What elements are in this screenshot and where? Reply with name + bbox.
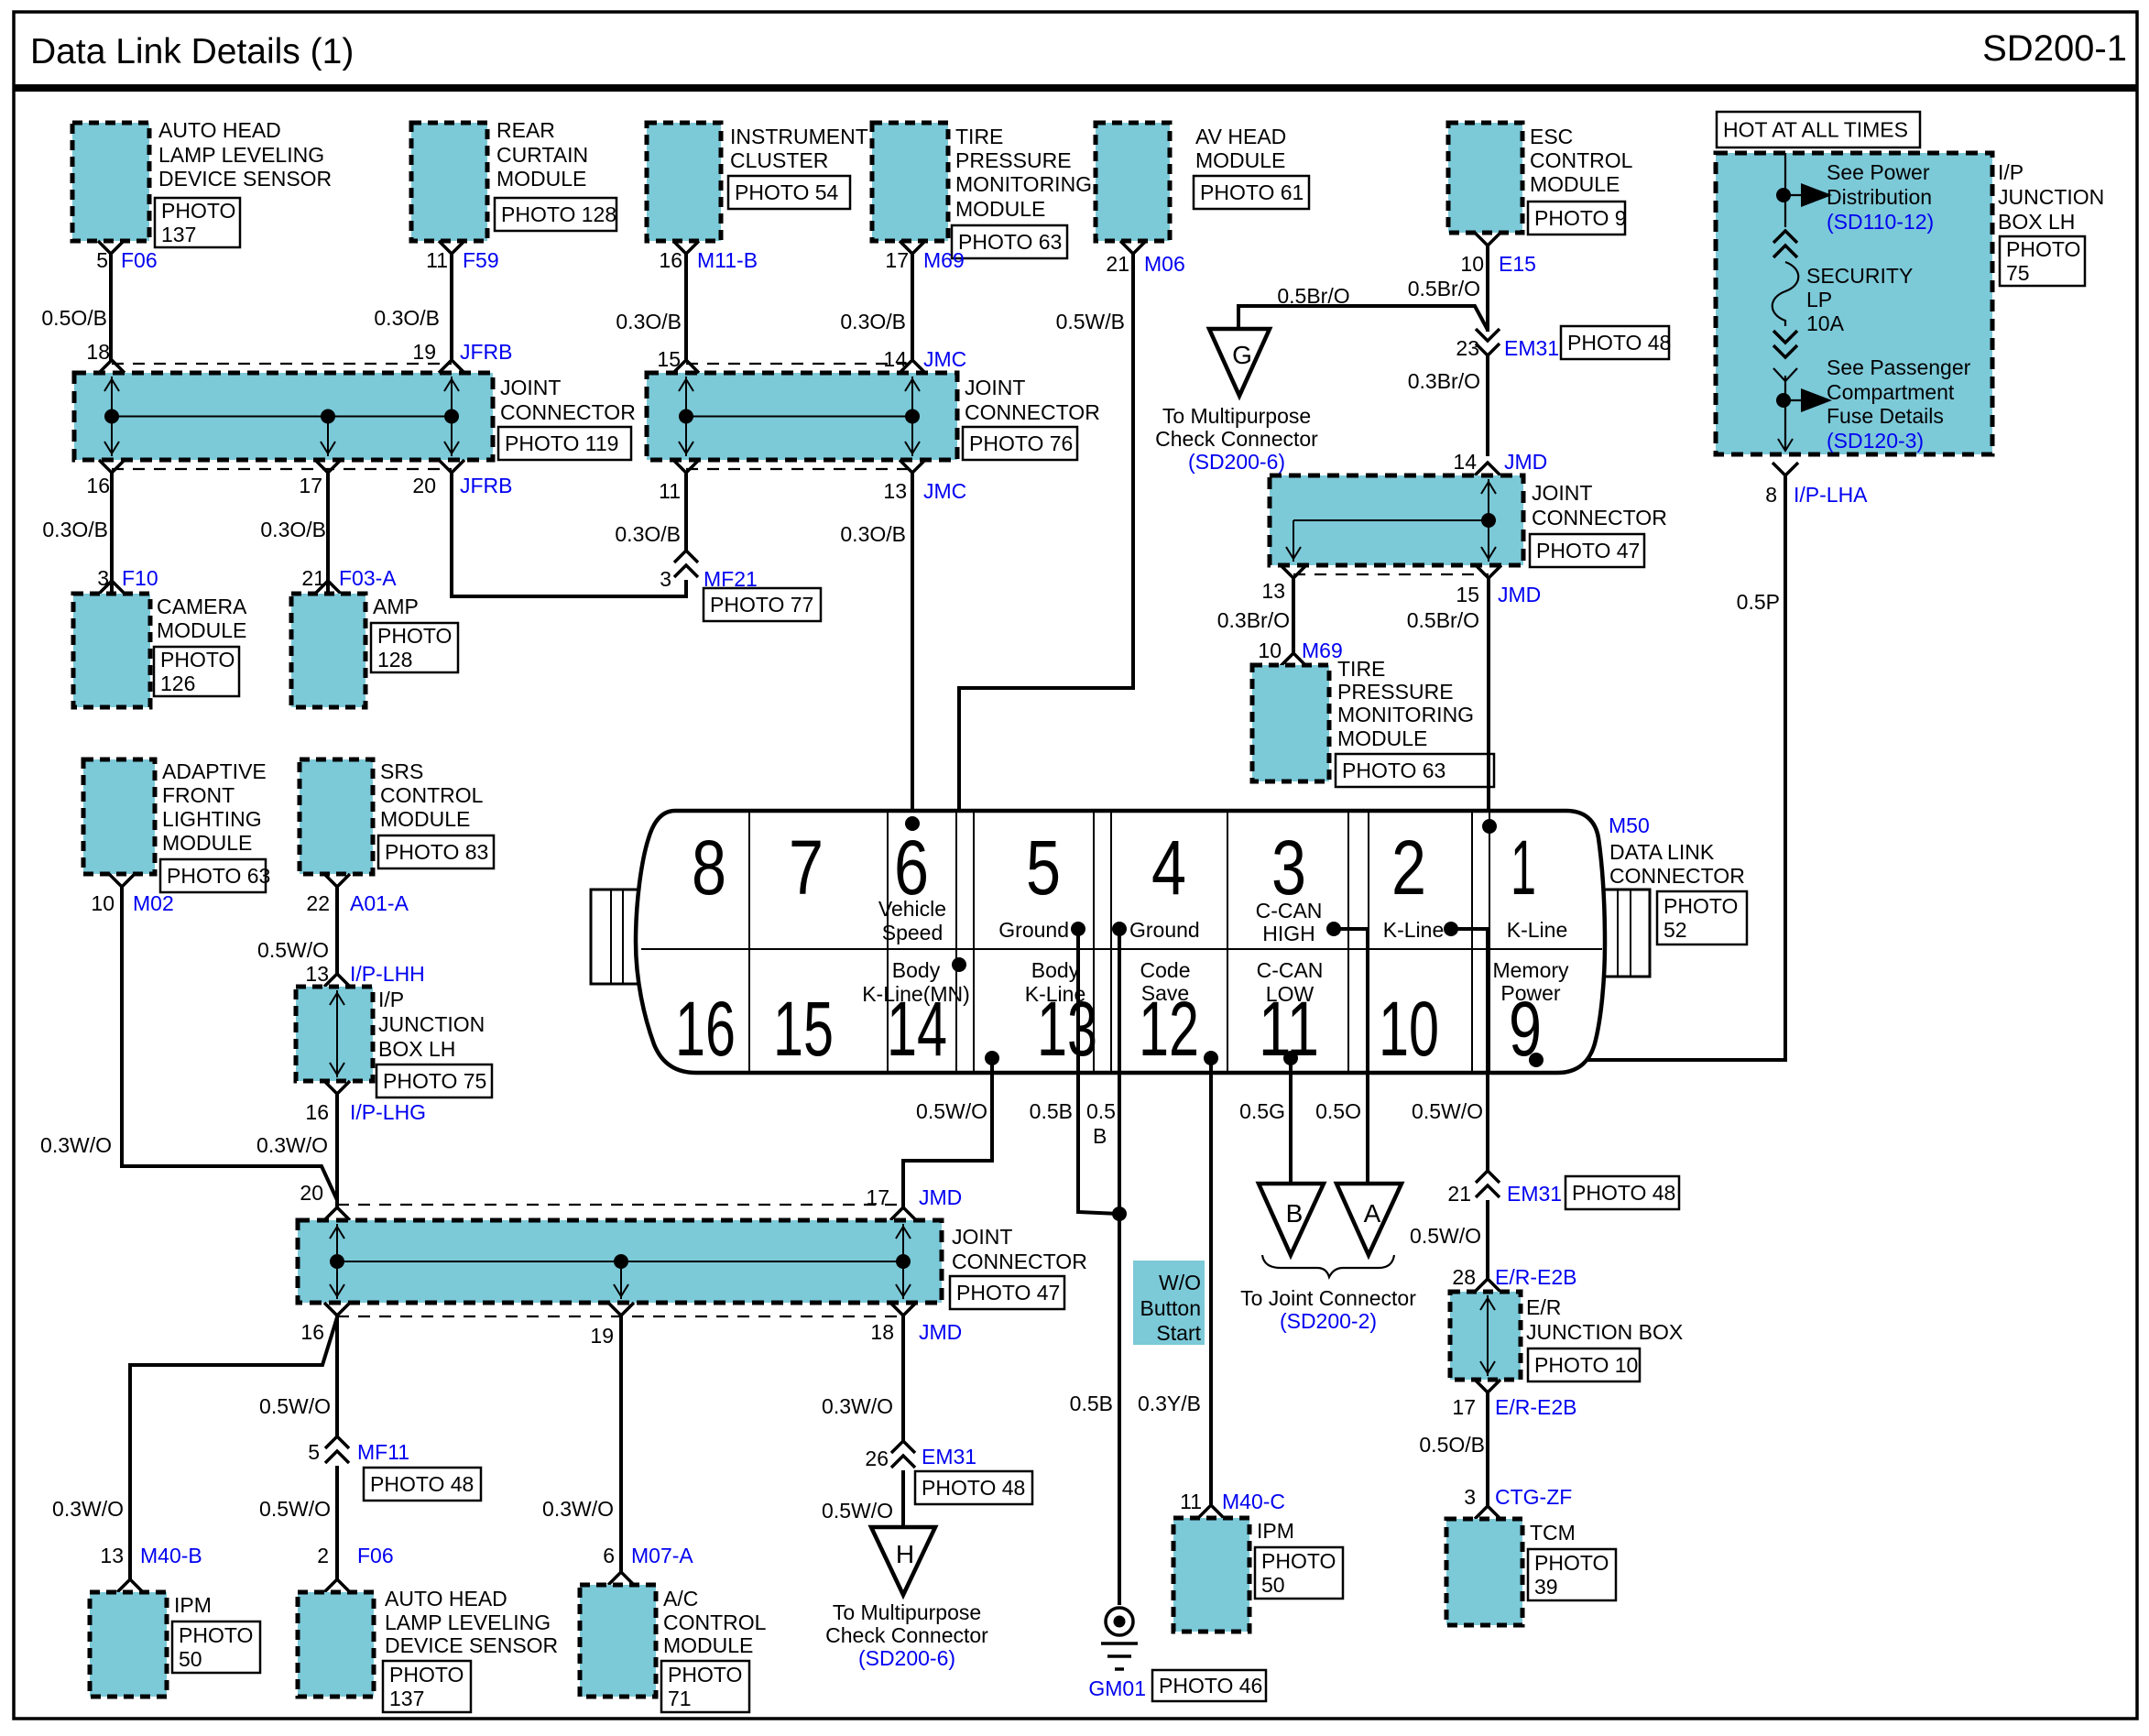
svg-text:0.3O/B: 0.3O/B	[42, 518, 108, 541]
svg-text:Vehicle: Vehicle	[878, 897, 946, 921]
wire DLC pin3 C-CAN high to triangle A (0.5O)	[1334, 929, 1368, 1184]
svg-text:DEVICE SENSOR: DEVICE SENSOR	[158, 167, 332, 191]
arrow to See Power Distribution	[1784, 194, 1801, 196]
svg-text:PHOTO 76: PHOTO 76	[969, 431, 1073, 455]
svg-text:0.3Br/O: 0.3Br/O	[1217, 608, 1290, 632]
svg-text:3: 3	[1271, 824, 1306, 911]
svg-text:G: G	[1232, 341, 1252, 369]
inline connector EM31 pin 23	[1476, 344, 1500, 355]
off-page triangle B	[1259, 1184, 1324, 1255]
svg-text:0.5B: 0.5B	[1030, 1099, 1073, 1123]
svg-text:Check Connector: Check Connector	[825, 1623, 988, 1647]
DLC right cable hatch symbol	[1598, 890, 1650, 977]
svg-text:0.3W/O: 0.3W/O	[542, 1497, 614, 1521]
pin 10 connector V of M02	[109, 874, 135, 887]
pin 17 connector V of E/R-E2B	[1475, 1380, 1500, 1392]
node: power distribution tap	[1776, 188, 1791, 202]
wire A01-A pin22 to I/P junction box (0.5W/O)	[335, 887, 339, 974]
svg-text:16: 16	[675, 986, 736, 1072]
svg-text:JOINT: JOINT	[1532, 481, 1592, 505]
svg-text:K-Line: K-Line	[1383, 918, 1444, 942]
svg-text:128: 128	[377, 648, 412, 671]
svg-text:I/P-LHA: I/P-LHA	[1794, 483, 1868, 507]
wire F59 pin11 to JC1 pin19 (0.3O/B)	[450, 254, 453, 362]
svg-text:M40-C: M40-C	[1222, 1490, 1285, 1513]
note box W/O Button Start	[1133, 1261, 1205, 1345]
photo ref box PHOTO 126	[154, 647, 239, 696]
svg-text:K-Line: K-Line	[1507, 918, 1567, 942]
svg-text:H: H	[896, 1540, 914, 1568]
node: pin 1 K-line junction	[1482, 819, 1497, 834]
svg-text:0.3O/B: 0.3O/B	[840, 522, 906, 546]
JC1 pin 17 exit chevron	[315, 460, 341, 473]
svg-text:PHOTO: PHOTO	[377, 624, 452, 648]
svg-text:DEVICE SENSOR: DEVICE SENSOR	[385, 1633, 558, 1657]
svg-text:Power: Power	[1500, 981, 1561, 1005]
svg-text:M07-A: M07-A	[631, 1544, 693, 1567]
svg-text:MODULE: MODULE	[1195, 148, 1285, 172]
wire JC2 pin11 down to MF21 (0.3O/B)	[684, 473, 688, 551]
svg-text:PHOTO 63: PHOTO 63	[167, 864, 270, 888]
svg-text:PHOTO 119: PHOTO 119	[505, 431, 618, 455]
svg-text:Start: Start	[1156, 1321, 1201, 1345]
svg-text:16: 16	[659, 248, 682, 272]
svg-text:16: 16	[305, 1100, 329, 1124]
joint connector JC (JFRB) PHOTO 119	[74, 373, 493, 460]
svg-text:17: 17	[299, 474, 322, 497]
svg-text:PRESSURE: PRESSURE	[1337, 680, 1454, 704]
svg-text:10: 10	[1379, 986, 1439, 1072]
wire DLC pin4 ground to GM01 (0.5B)	[1118, 929, 1121, 1605]
svg-text:ESC: ESC	[1530, 125, 1573, 148]
svg-text:AMP: AMP	[373, 595, 419, 618]
photo ref box PHOTO 48 (EM31 26)	[915, 1471, 1032, 1504]
svg-text:1: 1	[1511, 824, 1536, 911]
joint connector JC (JMC) PHOTO 76	[647, 373, 957, 460]
svg-text:BOX LH: BOX LH	[1998, 210, 2075, 234]
svg-text:PHOTO 63: PHOTO 63	[958, 230, 1062, 254]
brace under triangles A and B	[1262, 1255, 1394, 1277]
svg-text:15: 15	[1456, 583, 1479, 606]
svg-text:PHOTO: PHOTO	[1534, 1551, 1609, 1575]
svg-text:39: 39	[1534, 1575, 1558, 1599]
svg-text:F59: F59	[463, 248, 499, 272]
svg-text:26: 26	[865, 1447, 889, 1470]
svg-text:0.3O/B: 0.3O/B	[840, 310, 906, 333]
svg-text:JUNCTION: JUNCTION	[1998, 185, 2104, 209]
pin 14 chevron into JC3	[1475, 463, 1500, 475]
module: AUTO HEAD LAMP LEVELING DEVICE SENSOR (top, F06)	[72, 123, 149, 241]
svg-text:16: 16	[86, 474, 110, 497]
svg-text:PHOTO 47: PHOTO 47	[956, 1281, 1060, 1305]
svg-text:CONNECTOR: CONNECTOR	[965, 400, 1100, 424]
svg-text:3: 3	[1464, 1485, 1476, 1509]
svg-text:PHOTO 61: PHOTO 61	[1200, 180, 1304, 204]
svg-text:AV HEAD: AV HEAD	[1195, 125, 1286, 148]
svg-text:17: 17	[1452, 1395, 1476, 1419]
photo ref box PHOTO 52	[1657, 891, 1747, 944]
svg-text:See Power: See Power	[1827, 160, 1930, 184]
pin 3 connector V of F10	[99, 581, 125, 594]
DLC middle divider	[641, 948, 1602, 950]
pin 8 connector V of I/P-LHA	[1773, 463, 1798, 475]
svg-text:SD200-1: SD200-1	[1982, 28, 2127, 69]
svg-text:M50: M50	[1609, 813, 1650, 837]
svg-text:19: 19	[590, 1324, 614, 1348]
svg-text:10: 10	[1460, 252, 1484, 276]
svg-text:0.3O/B: 0.3O/B	[260, 518, 326, 541]
JC4 pin 19 exit chevron	[608, 1303, 634, 1316]
svg-text:5: 5	[308, 1440, 320, 1464]
node: pin 11 C-CAN low junction	[1283, 1051, 1298, 1065]
svg-text:PHOTO 48: PHOTO 48	[370, 1472, 474, 1496]
svg-text:PHOTO 47: PHOTO 47	[1536, 539, 1640, 562]
svg-text:TIRE: TIRE	[1337, 657, 1385, 681]
pin 11 connector V of M40-C	[1198, 1505, 1224, 1518]
svg-text:28: 28	[1452, 1265, 1476, 1289]
arrow down to pin 8	[1778, 439, 1793, 451]
cell divider 8|7	[748, 811, 750, 1073]
svg-text:E/R: E/R	[1526, 1295, 1561, 1319]
svg-text:CONTROL: CONTROL	[663, 1610, 767, 1634]
svg-text:0.5O: 0.5O	[1315, 1099, 1361, 1123]
branch wire to IPM M40-B (0.3W/O)	[130, 1317, 337, 1580]
svg-text:BOX LH: BOX LH	[378, 1037, 455, 1061]
photo ref box PHOTO 46	[1152, 1670, 1266, 1701]
arrow to See Passenger Compartment Fuse Details	[1784, 399, 1801, 401]
svg-text:18: 18	[86, 340, 110, 364]
svg-text:0.5O/B: 0.5O/B	[41, 306, 107, 330]
wire DLC pin13 to JC4 pin17 (0.5W/O)	[903, 1058, 992, 1207]
svg-text:10: 10	[1258, 639, 1282, 662]
photo ref box PHOTO 71	[661, 1661, 749, 1712]
svg-text:AUTO HEAD: AUTO HEAD	[158, 118, 281, 142]
module: SRS CONTROL MODULE (A01-A)	[300, 759, 373, 874]
wire M69 pin17 to JC2 pin14 (0.3O/B)	[911, 254, 914, 362]
inline connector MF11 pin 5	[325, 1436, 349, 1448]
wire DLC pin2 K-line to EM31 pin21 (0.5W/O)	[1451, 929, 1488, 1171]
wire M06 pin21 to DLC pin14 (0.5W/B)	[959, 254, 1133, 965]
svg-text:M40-B: M40-B	[140, 1544, 202, 1567]
fuse SECURITY LP 10A	[1773, 262, 1799, 326]
svg-text:MODULE: MODULE	[380, 807, 470, 831]
svg-text:50: 50	[179, 1647, 202, 1671]
node: ground wires junction	[1112, 1206, 1127, 1221]
svg-text:0.3Br/O: 0.3Br/O	[1408, 369, 1480, 393]
svg-text:JMC: JMC	[923, 347, 966, 371]
svg-text:JMD: JMD	[919, 1320, 962, 1344]
svg-text:Distribution: Distribution	[1827, 185, 1932, 209]
module: IPM (M40-C)	[1173, 1518, 1249, 1632]
svg-text:(SD200-2): (SD200-2)	[1280, 1309, 1377, 1333]
data link connector M50 body	[636, 811, 1605, 1073]
svg-text:(SD200-6): (SD200-6)	[858, 1646, 955, 1670]
svg-text:LOW: LOW	[1266, 982, 1314, 1006]
JC4 pin 18 exit chevron	[890, 1303, 916, 1316]
photo ref box PHOTO 10	[1528, 1348, 1640, 1381]
svg-text:0.5: 0.5	[1086, 1099, 1116, 1123]
svg-text:JMC: JMC	[923, 479, 966, 503]
JC2 pin 13 exit chevron	[900, 460, 925, 473]
svg-text:PHOTO 9: PHOTO 9	[1534, 206, 1627, 230]
JC3 pin 15 exit chevron	[1476, 565, 1501, 578]
wire DLC pin5 ground to GM01 (0.5B)	[1078, 929, 1119, 1214]
svg-text:DATA LINK: DATA LINK	[1609, 840, 1715, 864]
svg-text:F10: F10	[122, 566, 158, 590]
svg-text:PHOTO 75: PHOTO 75	[383, 1069, 486, 1093]
photo ref box PHOTO 63	[952, 225, 1067, 258]
wire EM31 pin26 to triangle H (0.5W/O)	[901, 1470, 905, 1527]
svg-text:PHOTO 77: PHOTO 77	[710, 593, 813, 617]
svg-text:2: 2	[1391, 824, 1426, 911]
svg-text:E/R-E2B: E/R-E2B	[1495, 1395, 1576, 1419]
node: pin 2 K-line junction	[1444, 922, 1458, 936]
svg-text:0.3W/O: 0.3W/O	[822, 1394, 893, 1418]
svg-text:JFRB: JFRB	[460, 474, 513, 497]
svg-text:Data Link Details (1): Data Link Details (1)	[30, 32, 354, 71]
svg-text:10: 10	[91, 891, 115, 915]
svg-text:22: 22	[306, 891, 330, 915]
svg-text:PHOTO 46: PHOTO 46	[1159, 1674, 1262, 1698]
svg-text:137: 137	[389, 1687, 424, 1710]
svg-text:CONTROL: CONTROL	[1530, 148, 1633, 172]
photo ref box PHOTO 63 (mid)	[1336, 754, 1494, 787]
svg-text:PRESSURE: PRESSURE	[955, 148, 1072, 172]
svg-text:I/P: I/P	[378, 988, 404, 1011]
svg-text:K-Line(MN): K-Line(MN)	[862, 982, 970, 1006]
svg-text:CAMERA: CAMERA	[157, 595, 247, 618]
svg-text:PHOTO 63: PHOTO 63	[1342, 759, 1445, 782]
JC2 pin 11 exit chevron	[673, 460, 699, 473]
I/P JUNCTION BOX LH (small, teal)	[296, 987, 373, 1081]
pin 6 connector V of M07-A	[608, 1572, 634, 1585]
same-connector dashed line above JC1	[112, 363, 452, 365]
svg-text:JOINT: JOINT	[952, 1225, 1012, 1249]
svg-text:Ground: Ground	[998, 918, 1069, 942]
svg-text:11: 11	[426, 248, 448, 272]
photo ref box PHOTO 50 (right)	[1255, 1547, 1343, 1599]
svg-text:8: 8	[1765, 483, 1777, 507]
pin 11 connector V of F59	[439, 241, 464, 254]
wire JC1 pin16 to camera module (0.3O/B)	[110, 473, 114, 594]
svg-text:MONITORING: MONITORING	[955, 172, 1092, 196]
off-page triangle A	[1336, 1184, 1402, 1255]
module: IPM (M40-B)	[90, 1592, 167, 1697]
wire E15 pin10 down to EM31 (0.5Br/O)	[1486, 246, 1489, 332]
svg-text:0.3Y/B: 0.3Y/B	[1138, 1392, 1201, 1415]
svg-text:FRONT: FRONT	[162, 783, 235, 807]
svg-text:11: 11	[659, 479, 681, 503]
svg-text:JMD: JMD	[1498, 583, 1541, 606]
title separator bar	[14, 84, 2137, 92]
svg-text:CURTAIN: CURTAIN	[496, 143, 588, 167]
fuse feed line inside I/P junction box	[1784, 153, 1786, 227]
pin 22 connector V of A01-A	[324, 874, 350, 887]
svg-text:LAMP LEVELING: LAMP LEVELING	[158, 143, 324, 167]
photo ref box PHOTO 47	[1530, 534, 1644, 567]
svg-text:CTG-ZF: CTG-ZF	[1495, 1485, 1572, 1509]
wire I/P-LHG pin16 to JC4 pin20 (0.3W/O)	[335, 1094, 339, 1207]
svg-text:75: 75	[2006, 261, 2030, 285]
svg-text:Ground: Ground	[1129, 918, 1200, 942]
svg-text:EM31: EM31	[1507, 1182, 1562, 1206]
fuse bottom double chevron	[1773, 345, 1797, 357]
svg-text:Button: Button	[1140, 1296, 1202, 1320]
wire JC3 pin15 to DLC pin1 K-line (0.5Br/O)	[1487, 578, 1490, 826]
svg-text:52: 52	[1664, 918, 1687, 942]
svg-text:REAR: REAR	[496, 118, 555, 142]
svg-text:8: 8	[692, 824, 726, 911]
svg-text:SRS: SRS	[380, 759, 423, 783]
svg-text:M11-B: M11-B	[697, 248, 758, 272]
photo ref box PHOTO 83	[378, 835, 494, 868]
svg-text:MODULE: MODULE	[1530, 172, 1620, 196]
svg-text:0.5Br/O: 0.5Br/O	[1277, 284, 1349, 308]
svg-text:4: 4	[1151, 824, 1186, 911]
svg-text:MODULE: MODULE	[496, 167, 586, 191]
svg-text:PHOTO 10: PHOTO 10	[1534, 1353, 1638, 1377]
svg-text:M69: M69	[923, 248, 965, 272]
pin 21 connector V of M06	[1120, 241, 1146, 254]
svg-text:13: 13	[100, 1544, 124, 1567]
node: pin 5 ground junction	[1071, 922, 1085, 936]
svg-text:F06: F06	[121, 248, 158, 272]
cell divider 3|2	[1347, 811, 1349, 1073]
node: pin 4 ground junction	[1112, 922, 1127, 936]
node: pin 6 vehicle speed junction	[905, 816, 920, 831]
wire JC1 pin17 to AMP (0.3O/B)	[326, 473, 330, 594]
same-connector dashed line below JC3	[1293, 573, 1489, 575]
ground symbol GM01	[1106, 1608, 1133, 1635]
svg-text:0.5W/O: 0.5W/O	[259, 1394, 331, 1418]
svg-text:PHOTO 54: PHOTO 54	[735, 180, 839, 204]
svg-text:(SD120-3): (SD120-3)	[1827, 429, 1924, 453]
svg-text:CLUSTER: CLUSTER	[730, 148, 828, 172]
svg-text:0.5W/O: 0.5W/O	[916, 1099, 987, 1123]
photo ref box PHOTO 9	[1528, 202, 1625, 235]
cell divider 6|5	[955, 811, 957, 1073]
svg-text:EM31: EM31	[922, 1445, 976, 1469]
svg-text:13: 13	[1261, 579, 1285, 603]
pin 10 connector V of E15	[1475, 233, 1500, 246]
off-page triangle H	[871, 1527, 935, 1595]
svg-text:MODULE: MODULE	[1337, 726, 1427, 750]
svg-text:CONNECTOR: CONNECTOR	[500, 400, 636, 424]
svg-text:50: 50	[1261, 1573, 1285, 1597]
svg-text:A/C: A/C	[663, 1587, 698, 1610]
svg-text:Fuse Details: Fuse Details	[1827, 404, 1944, 428]
svg-text:13: 13	[305, 962, 329, 986]
node: pin 3 C-CAN high junction	[1326, 922, 1341, 936]
svg-text:Memory: Memory	[1492, 958, 1569, 982]
svg-text:0.5W/O: 0.5W/O	[822, 1499, 893, 1523]
same-connector dashed line above JC4	[337, 1204, 903, 1206]
svg-text:0.5O/B: 0.5O/B	[1419, 1433, 1485, 1457]
photo ref box PHOTO 119	[498, 427, 631, 460]
pin 17 connector V of M69	[900, 241, 925, 254]
svg-text:TCM: TCM	[1530, 1521, 1576, 1545]
svg-text:Check Connector: Check Connector	[1155, 427, 1318, 451]
same-connector dashed line above JC2	[686, 363, 912, 365]
JC1 pin 16 exit chevron	[99, 460, 125, 473]
svg-text:126: 126	[160, 671, 195, 695]
wire JC4 pin16 down to MF11 (0.5W/O)	[335, 1316, 339, 1436]
svg-text:20: 20	[412, 474, 436, 497]
node: pin 13 body K-line junction	[985, 1051, 999, 1065]
svg-text:TIRE: TIRE	[955, 125, 1003, 148]
svg-text:0.3W/O: 0.3W/O	[40, 1133, 112, 1157]
wire 0.5Br/O from G triangle to EM31 junction	[1238, 306, 1488, 330]
svg-text:19: 19	[412, 340, 436, 364]
svg-text:HIGH: HIGH	[1262, 922, 1315, 945]
wire M11-B pin16 to JC2 pin15 (0.3O/B)	[684, 254, 688, 362]
svg-text:PHOTO: PHOTO	[179, 1623, 253, 1647]
wire JC1 pin20 to MF21 pin3 (0.3O/B)	[452, 473, 686, 596]
svg-text:(SD110-12): (SD110-12)	[1827, 210, 1934, 234]
svg-text:16: 16	[300, 1320, 324, 1344]
module: REAR CURTAIN MODULE (F59)	[411, 123, 487, 241]
photo ref box PHOTO 39	[1528, 1549, 1616, 1600]
svg-text:21: 21	[1447, 1182, 1471, 1206]
pin 10 connector V of M69	[1281, 653, 1306, 666]
svg-text:13: 13	[883, 479, 907, 503]
photo ref box PHOTO 54	[728, 176, 850, 209]
I/P JUNCTION BOX LH (fuse box, teal)	[1716, 153, 1992, 454]
wire I/P-LHA pin8 to DLC pin9 memory power (0.5P)	[1536, 475, 1785, 1060]
svg-text:(SD200-6): (SD200-6)	[1188, 450, 1285, 474]
svg-text:2: 2	[317, 1544, 329, 1567]
svg-text:F06: F06	[357, 1544, 394, 1567]
DLC left cable hatch symbol	[591, 890, 638, 984]
cell divider 7|6	[887, 811, 889, 1073]
label box HOT AT ALL TIMES	[1717, 112, 1920, 147]
svg-text:A01-A: A01-A	[350, 891, 409, 915]
svg-text:B: B	[1286, 1199, 1304, 1228]
same-connector dashed line below JC1	[112, 468, 452, 470]
svg-text:See Passenger: See Passenger	[1827, 355, 1971, 379]
JC4 pin 20 entry chevron	[324, 1207, 350, 1220]
wire E/R junction box pin17 to TCM pin3 (0.5O/B)	[1486, 1392, 1489, 1506]
svg-text:Speed: Speed	[882, 921, 944, 944]
svg-text:20: 20	[300, 1181, 323, 1205]
module: CAMERA MODULE (F10)	[73, 594, 150, 707]
svg-text:LP: LP	[1806, 288, 1832, 311]
pin 2 connector V of F06 (bottom)	[324, 1579, 350, 1592]
svg-text:JMD: JMD	[919, 1185, 962, 1209]
svg-text:CONTROL: CONTROL	[380, 783, 484, 807]
svg-text:EM31: EM31	[1504, 336, 1559, 360]
photo ref box PHOTO 137	[155, 198, 240, 247]
svg-text:15: 15	[773, 986, 834, 1072]
module: AV HEAD MODULE (M06)	[1096, 123, 1170, 241]
svg-text:7: 7	[789, 824, 824, 911]
photo ref box PHOTO 63 (AFLS)	[160, 859, 266, 892]
module: A/C CONTROL MODULE (M07-A)	[580, 1585, 656, 1697]
svg-text:M06: M06	[1144, 252, 1185, 276]
cell divider 2|1	[1471, 811, 1473, 1073]
svg-text:0.5W/B: 0.5W/B	[1056, 310, 1125, 333]
svg-text:I/P-LHH: I/P-LHH	[350, 962, 425, 986]
svg-text:E15: E15	[1499, 252, 1536, 276]
photo ref box PHOTO 75 (small)	[376, 1065, 492, 1097]
svg-text:HOT AT ALL TIMES: HOT AT ALL TIMES	[1723, 118, 1908, 142]
svg-text:JMD: JMD	[1504, 450, 1547, 474]
svg-text:Save: Save	[1141, 981, 1189, 1005]
svg-text:JUNCTION: JUNCTION	[378, 1012, 485, 1036]
svg-text:71: 71	[668, 1687, 692, 1710]
svg-text:PHOTO: PHOTO	[389, 1663, 464, 1687]
wire JC2 pin13 to DLC pin6 (0.3O/B)	[911, 473, 914, 822]
